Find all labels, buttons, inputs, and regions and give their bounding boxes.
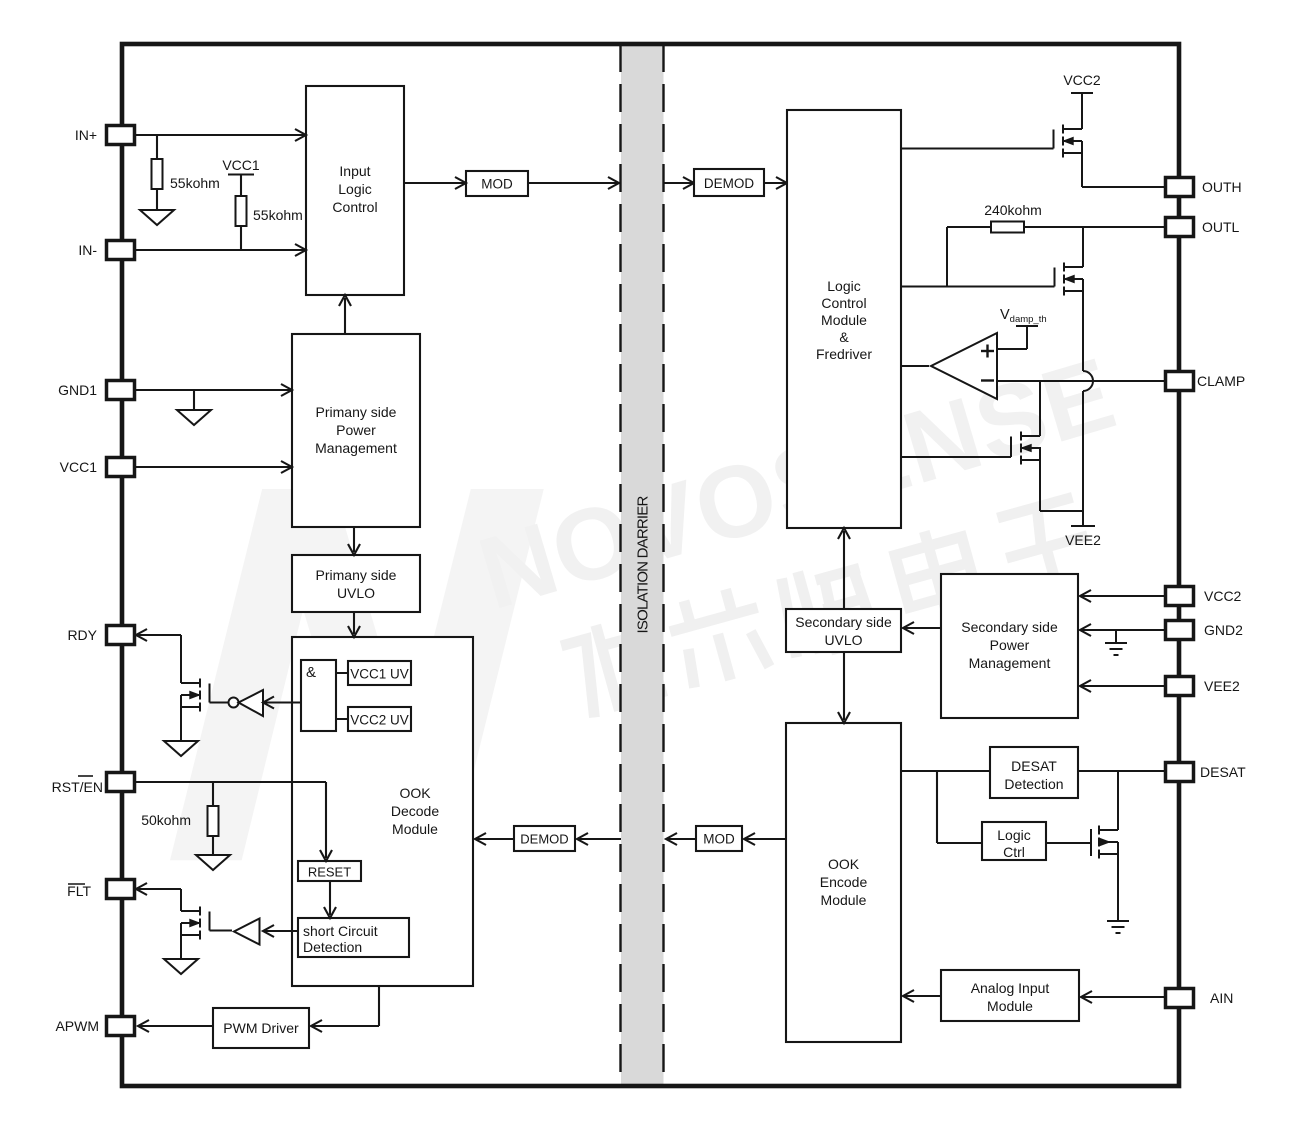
svg-text:MOD: MOD [481,177,513,192]
svg-text:55kohm: 55kohm [170,175,220,191]
svg-text:Module: Module [392,821,438,837]
svg-text:Power: Power [336,422,376,438]
svg-text:short Circuit: short Circuit [303,923,378,939]
svg-text:Primany side: Primany side [316,404,397,420]
svg-text:UVLO: UVLO [824,632,862,648]
svg-text:Fredriver: Fredriver [816,346,872,362]
svg-text:Primany side: Primany side [316,567,397,583]
svg-text:50kohm: 50kohm [141,812,191,828]
svg-text:VCC2 UV: VCC2 UV [350,713,409,728]
svg-text:Input: Input [339,163,370,179]
svg-text:RDY: RDY [67,627,97,643]
svg-text:GND1: GND1 [58,382,97,398]
svg-text:Power: Power [990,637,1030,653]
svg-text:Logic: Logic [997,827,1030,843]
svg-text:Ctrl: Ctrl [1003,844,1025,860]
svg-text:240kohm: 240kohm [984,202,1042,218]
svg-text:Secondary side: Secondary side [961,619,1058,635]
svg-text:OOK: OOK [399,785,431,801]
svg-text:&: & [306,664,316,681]
svg-text:VEE2: VEE2 [1204,678,1240,694]
svg-text:Detection: Detection [1004,776,1063,792]
svg-text:OOK: OOK [828,856,860,872]
svg-text:Logic: Logic [338,181,371,197]
svg-text:VCC1 UV: VCC1 UV [350,667,409,682]
svg-text:DESAT: DESAT [1200,764,1246,780]
svg-text:VCC2: VCC2 [1204,588,1242,604]
svg-text:Secondary side: Secondary side [795,614,892,630]
svg-text:IN+: IN+ [75,127,97,143]
svg-text:UVLO: UVLO [337,585,375,601]
svg-text:Management: Management [315,440,397,456]
svg-text:Analog Input: Analog Input [971,980,1050,996]
svg-text:OUTL: OUTL [1202,219,1240,235]
svg-text:Decode: Decode [391,803,439,819]
svg-text:VCC1: VCC1 [222,157,260,173]
svg-text:Encode: Encode [820,874,868,890]
svg-text:DESAT: DESAT [1011,758,1057,774]
svg-text:AIN: AIN [1210,990,1233,1006]
svg-text:CLAMP: CLAMP [1197,373,1245,389]
svg-text:Logic: Logic [827,278,860,294]
svg-text:PWM Driver: PWM Driver [223,1020,299,1036]
svg-text:Control: Control [821,295,866,311]
svg-text:VEE2: VEE2 [1065,532,1101,548]
svg-text:Detection: Detection [303,939,362,955]
svg-text:IN-: IN- [78,242,97,258]
svg-text:Module: Module [987,998,1033,1014]
svg-text:55kohm: 55kohm [253,207,303,223]
svg-text:ISOLATION DARRIER: ISOLATION DARRIER [635,496,652,634]
svg-text:VCC2: VCC2 [1063,72,1101,88]
svg-text:Module: Module [821,312,867,328]
svg-text:DEMOD: DEMOD [704,176,755,191]
svg-text:&: & [839,329,849,345]
svg-text:DEMOD: DEMOD [520,832,568,847]
svg-text:RESET: RESET [308,865,351,880]
svg-text:GND2: GND2 [1204,622,1243,638]
svg-text:VCC1: VCC1 [60,459,98,475]
svg-text:RST/EN: RST/EN [52,779,103,795]
svg-text:MOD: MOD [703,832,735,847]
svg-text:FLT: FLT [67,883,91,899]
svg-text:OUTH: OUTH [1202,179,1242,195]
svg-text:Management: Management [969,655,1051,671]
svg-text:Control: Control [332,199,377,215]
svg-text:Module: Module [821,892,867,908]
svg-text:APWM: APWM [55,1018,99,1034]
